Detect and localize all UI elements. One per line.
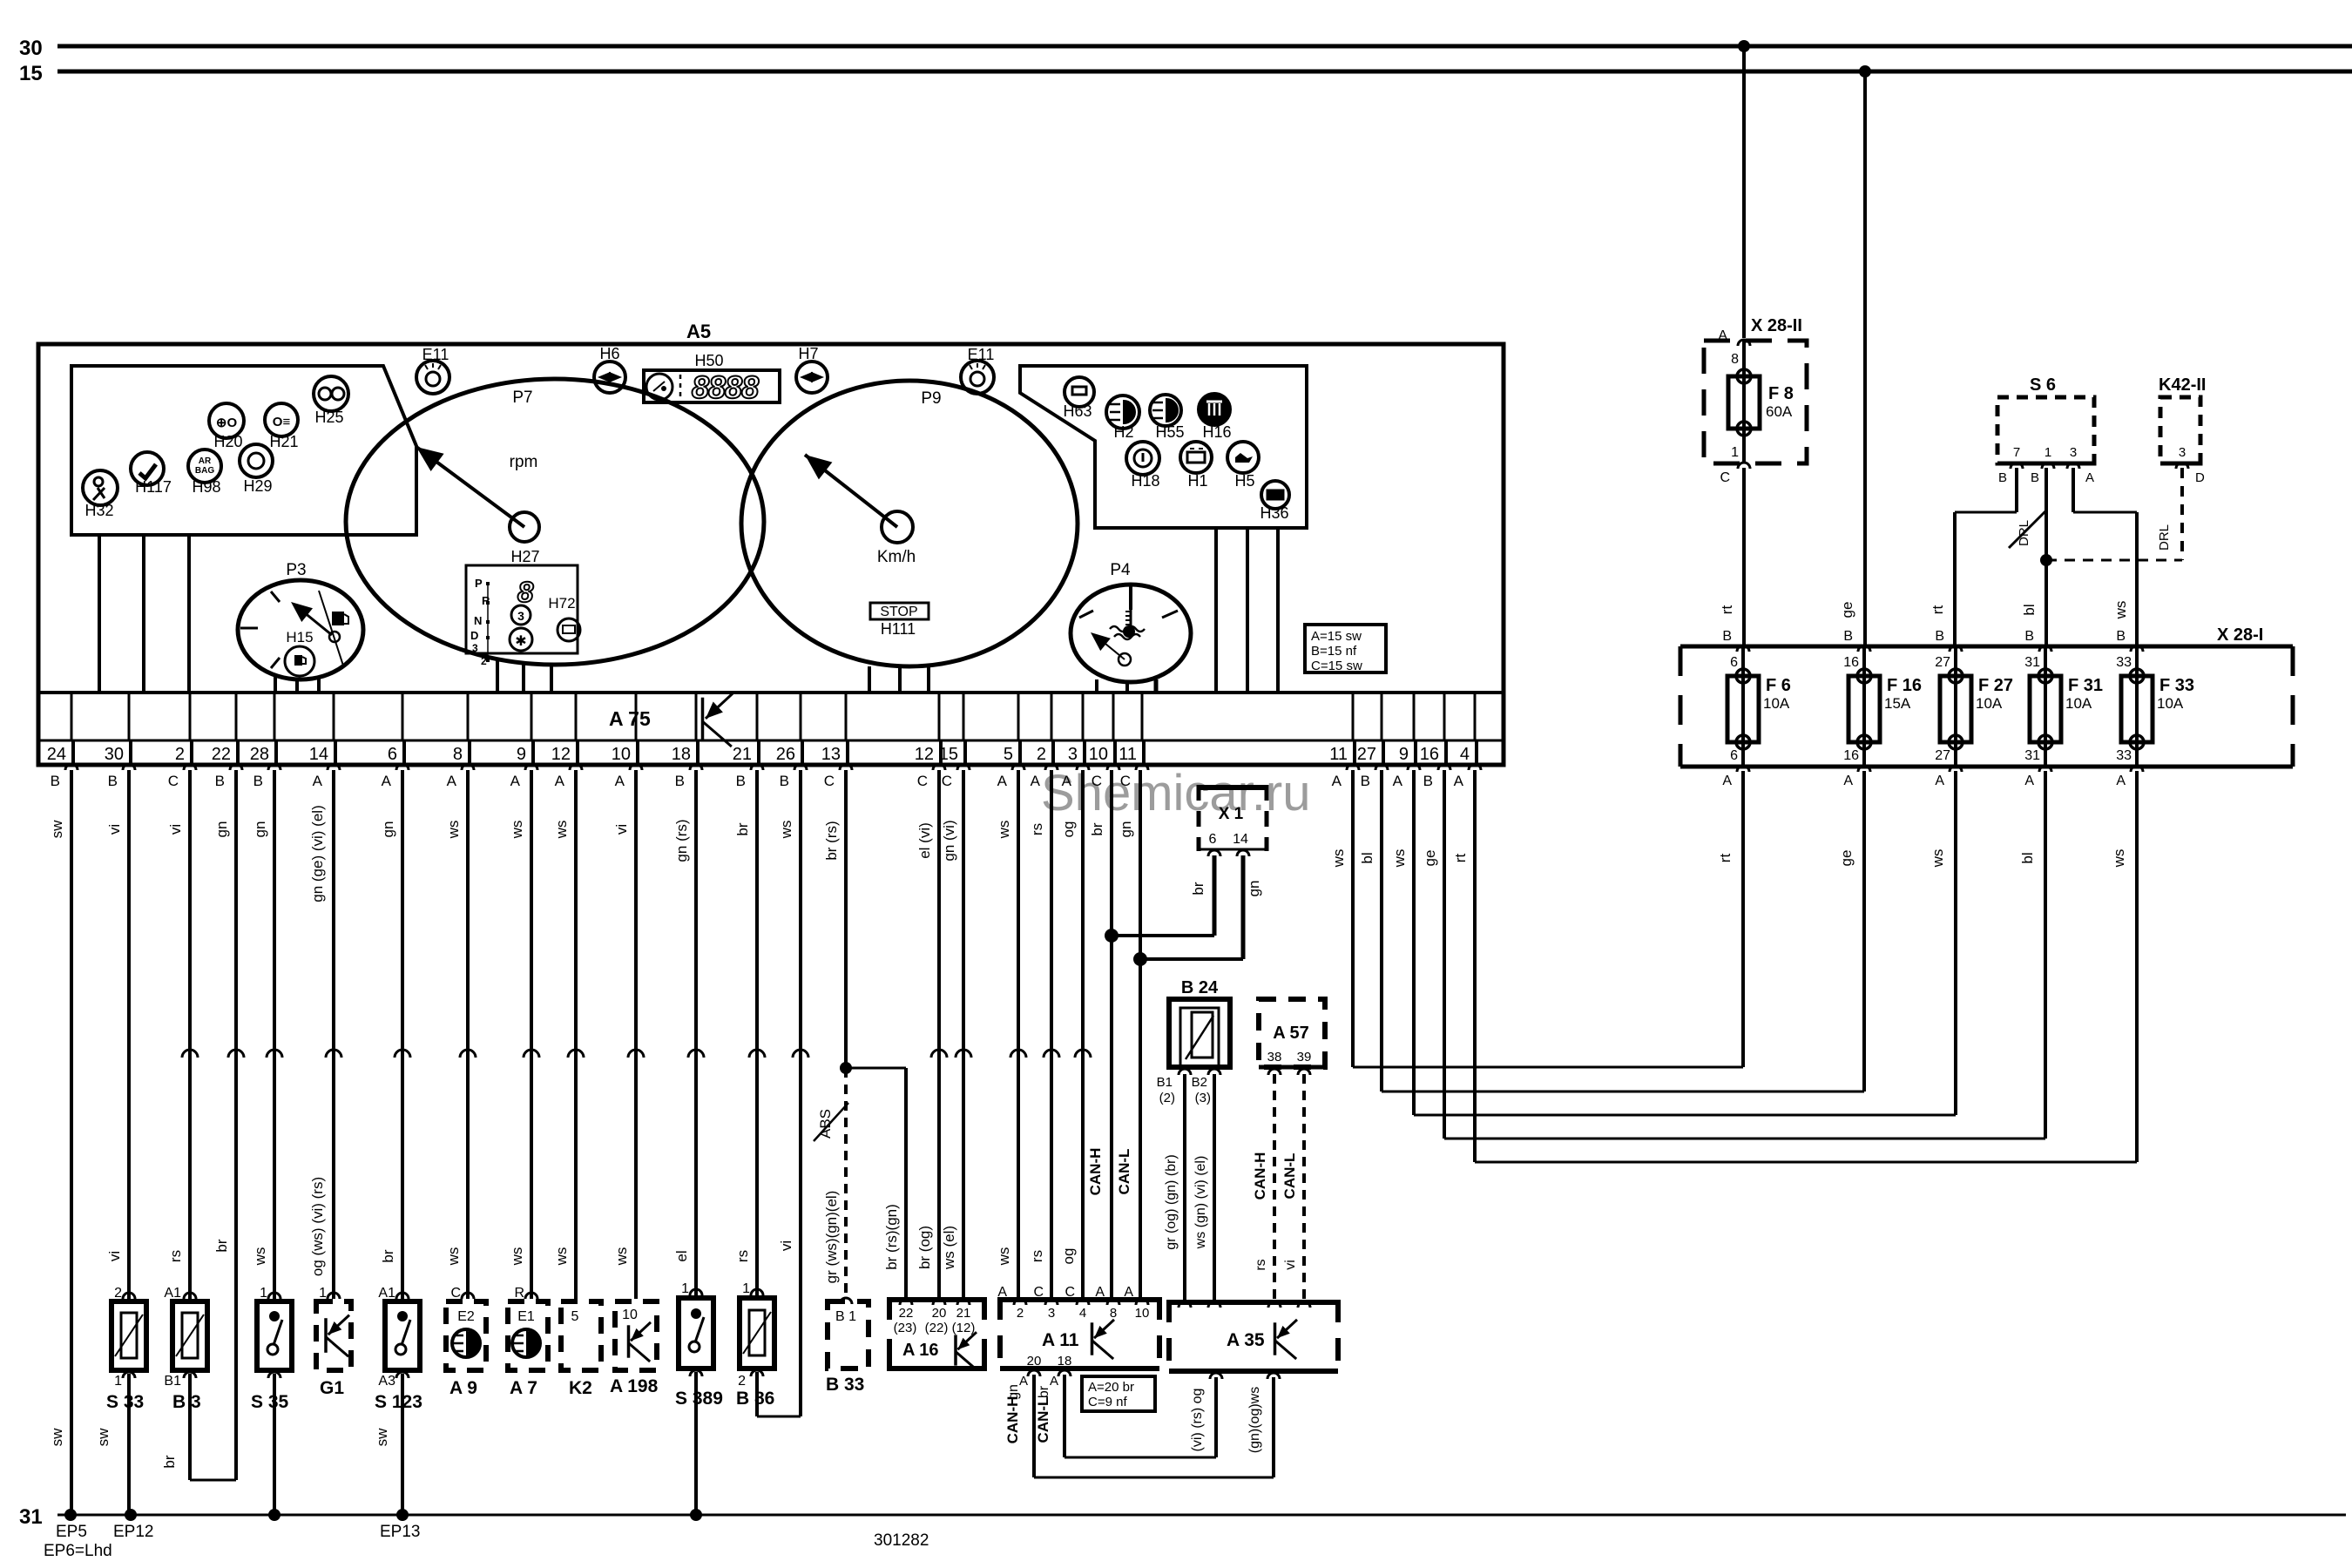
svg-text:br: br: [213, 1239, 230, 1252]
svg-text:A=20 br: A=20 br: [1088, 1380, 1134, 1395]
svg-text:39: 39: [1297, 1050, 1312, 1064]
svg-text:A: A: [2116, 774, 2126, 788]
svg-text:H50: H50: [694, 352, 723, 369]
svg-text:A: A: [555, 773, 565, 789]
svg-text:B: B: [1423, 773, 1433, 789]
svg-text:K2: K2: [569, 1378, 592, 1398]
svg-text:1: 1: [114, 1374, 122, 1389]
indicator H20: [209, 403, 244, 450]
svg-text:ws: ws: [996, 1247, 1012, 1267]
svg-text:DRL: DRL: [2157, 524, 2172, 551]
svg-text:CAN-H: CAN-H: [1087, 1148, 1104, 1196]
svg-text:A 198: A 198: [610, 1376, 659, 1396]
svg-text:10A: 10A: [1976, 695, 2003, 712]
sensor B24: [1157, 978, 1230, 1105]
pin 13 (C): [821, 693, 852, 789]
svg-text:DRL: DRL: [2017, 520, 2031, 546]
svg-text:A: A: [1062, 773, 1072, 789]
wire A11 pin20 CAN-H: [1004, 1370, 1274, 1477]
svg-text:S 6: S 6: [2030, 375, 2056, 395]
indicator H55: [1150, 395, 1185, 441]
pcb A75: [609, 693, 733, 747]
svg-text:gn (ge) (vi) (el): gn (ge) (vi) (el): [309, 805, 326, 902]
connector X28-II with fuse F8: [1704, 316, 1807, 463]
svg-text:X 28-II: X 28-II: [1751, 316, 1802, 335]
svg-text:og: og: [1060, 821, 1077, 838]
bus 31 (ground): [19, 1505, 2346, 1529]
svg-text:H15: H15: [286, 629, 313, 645]
fuse F33: [2116, 629, 2194, 788]
svg-text:21: 21: [956, 1306, 971, 1321]
wire fuel gauge: [317, 676, 321, 693]
svg-text:ws: ws: [1330, 849, 1347, 868]
svg-text:B: B: [2024, 629, 2034, 644]
svg-text:10: 10: [612, 745, 631, 764]
svg-text:sw: sw: [374, 1428, 390, 1447]
svg-text:8: 8: [453, 745, 463, 764]
svg-text:9: 9: [517, 745, 526, 764]
svg-text:br: br: [1089, 822, 1105, 835]
svg-text:12: 12: [915, 745, 934, 764]
svg-text:br: br: [161, 1455, 178, 1468]
wire below S389: [690, 1370, 702, 1515]
fuel gauge P3: [238, 561, 363, 679]
svg-text:H117: H117: [135, 478, 172, 496]
wire from indicator box: [187, 535, 191, 693]
pin 10 (A): [612, 693, 642, 789]
svg-text:6: 6: [1730, 655, 1738, 670]
svg-text:26: 26: [776, 745, 795, 764]
wire ws pin26: [778, 770, 808, 1416]
instrument cluster A5: [38, 321, 1504, 765]
generator G1: [316, 1286, 351, 1398]
svg-text:F 33: F 33: [2159, 676, 2194, 695]
svg-text:A: A: [1454, 773, 1464, 789]
svg-text:C: C: [917, 773, 928, 789]
wire br pin10 CAN-H: [1087, 770, 1112, 1300]
svg-text:(12): (12): [952, 1321, 976, 1335]
svg-text:X 1: X 1: [1219, 805, 1244, 823]
svg-text:38: 38: [1267, 1050, 1282, 1064]
svg-text:A 11: A 11: [1042, 1330, 1079, 1350]
svg-text:60A: 60A: [1766, 403, 1793, 420]
module A16: [889, 1297, 984, 1371]
fuse F27: [1935, 629, 2013, 788]
svg-text:C: C: [168, 773, 179, 789]
svg-text:B: B: [1998, 470, 2007, 485]
svg-text:B: B: [2116, 629, 2126, 644]
wire sw pin24: [49, 770, 71, 1515]
svg-text:CAN-L: CAN-L: [1035, 1397, 1051, 1443]
pin 11 (C): [1119, 693, 1148, 789]
svg-text:14: 14: [1233, 832, 1248, 847]
wire speedo: [868, 666, 871, 693]
svg-text:28: 28: [250, 745, 269, 764]
svg-text:3: 3: [2179, 445, 2186, 460]
svg-text:A: A: [382, 773, 392, 789]
sensor B3: [164, 1286, 207, 1412]
svg-text:rt: rt: [1719, 605, 1735, 615]
svg-text:A: A: [2085, 470, 2094, 485]
svg-text:O≡: O≡: [273, 415, 291, 429]
svg-text:A 75: A 75: [609, 707, 651, 730]
svg-text:EP13: EP13: [380, 1523, 420, 1541]
indicator H98: [188, 449, 221, 496]
indicator H2: [1106, 395, 1139, 441]
wire sw below S33: [95, 1372, 135, 1515]
wire ws pin12 to K2: [553, 770, 584, 1299]
svg-text:ws: ws: [1391, 849, 1408, 868]
svg-text:B 24: B 24: [1181, 978, 1219, 997]
svg-text:2: 2: [481, 655, 487, 667]
wire S6 pin1 to F31 DRL: [2009, 468, 2046, 646]
svg-text:STOP: STOP: [880, 605, 917, 619]
bus 30 (battery +): [19, 37, 2352, 60]
svg-text:31: 31: [2024, 748, 2040, 763]
svg-text:C=15 sw: C=15 sw: [1311, 659, 1362, 673]
svg-text:CAN-L: CAN-L: [1116, 1149, 1132, 1195]
indicator H18: [1126, 442, 1160, 490]
wire gn(vi) pin15: [941, 770, 971, 1297]
wire tach: [522, 664, 525, 693]
svg-text:H36: H36: [1260, 504, 1288, 522]
svg-text:A: A: [1843, 774, 1853, 788]
svg-text:18: 18: [1058, 1354, 1072, 1369]
svg-text:3: 3: [1048, 1306, 1055, 1321]
wire B24 B2 to A35: [1193, 1074, 1214, 1300]
svg-text:8: 8: [1731, 352, 1739, 367]
svg-text:gn: gn: [252, 821, 268, 838]
wire ws pin8 to A9: [445, 770, 476, 1299]
svg-text:rs: rs: [734, 1250, 751, 1262]
wire br(rs) pin13 ABS: [814, 770, 852, 1297]
svg-text:vi: vi: [106, 1251, 123, 1261]
svg-text:ws: ws: [2112, 601, 2129, 620]
svg-text:H20: H20: [213, 433, 242, 450]
indicator box right: [1020, 366, 1307, 528]
svg-text:7: 7: [2013, 445, 2020, 460]
svg-text:6: 6: [1209, 832, 1217, 847]
svg-text:rt: rt: [1452, 854, 1469, 863]
pin 8 (A): [447, 693, 474, 789]
sensor B86: [736, 1281, 774, 1409]
svg-text:6: 6: [1730, 748, 1738, 763]
svg-text:gr (ws)(gn)(el): gr (ws)(gn)(el): [823, 1191, 840, 1284]
svg-text:P4: P4: [1110, 561, 1131, 579]
svg-text:ws: ws: [252, 1247, 268, 1267]
svg-text:3: 3: [472, 642, 478, 654]
svg-text:B=15 nf: B=15 nf: [1311, 644, 1357, 659]
tachometer P7: [346, 379, 764, 665]
svg-text:BAG: BAG: [195, 466, 214, 476]
svg-text:K42-II: K42-II: [2159, 375, 2206, 395]
svg-text:S 33: S 33: [106, 1392, 144, 1412]
svg-text:B: B: [675, 773, 685, 789]
pin 15 (C): [939, 693, 970, 789]
svg-text:gn: gn: [380, 821, 396, 838]
junction DRL: [2040, 554, 2052, 566]
svg-text:rs: rs: [1254, 1259, 1268, 1270]
wire below S35: [268, 1372, 280, 1515]
svg-text:vi: vi: [167, 824, 184, 835]
svg-text:bl: bl: [2021, 604, 2038, 615]
wire temp gauge: [1095, 679, 1098, 693]
svg-text:H32: H32: [84, 502, 113, 519]
svg-text:rt: rt: [1930, 605, 1946, 615]
wire ws pin5: [996, 770, 1026, 1300]
wire from indicator box right: [1246, 528, 1249, 693]
wire A35 out left: [1190, 1373, 1222, 1457]
indicator H29: [240, 444, 273, 495]
bus 15 (ignition +): [19, 62, 2352, 85]
svg-text:27: 27: [1935, 655, 1950, 670]
wire ws fuse to cluster: [1414, 771, 1956, 1115]
wire from bus30 to X28-II: [1738, 40, 1750, 338]
svg-text:A3: A3: [378, 1374, 395, 1389]
wire temp gauge: [1154, 679, 1159, 693]
indicator H25: [314, 376, 348, 426]
svg-text:og (ws) (vi) (rs): og (ws) (vi) (rs): [309, 1177, 326, 1276]
svg-text:22: 22: [899, 1306, 914, 1321]
gear display H27: [466, 548, 580, 667]
wire speedo: [898, 666, 902, 693]
svg-text:6: 6: [388, 745, 397, 764]
lamp A7: [508, 1286, 548, 1398]
pin 6 (A): [382, 693, 409, 789]
pin 30 (B): [105, 693, 135, 789]
ground junction: [690, 1509, 702, 1521]
wire K42-II DRL dashed: [2046, 468, 2182, 560]
ground EP5: [56, 1509, 87, 1541]
connector X1: [1199, 785, 1267, 856]
svg-text:P9: P9: [921, 389, 941, 408]
wire gn pin11 CAN-L: [1116, 770, 1140, 1300]
svg-text:rpm: rpm: [510, 453, 538, 471]
svg-text:Km/h: Km/h: [877, 548, 916, 566]
svg-text:E1: E1: [517, 1309, 535, 1324]
pin 16 (B): [1420, 693, 1450, 789]
wire fuel gauge: [295, 679, 299, 693]
svg-text:br: br: [1190, 882, 1206, 895]
svg-text:A: A: [313, 773, 323, 789]
svg-text:30: 30: [19, 37, 43, 60]
svg-text:EP5: EP5: [56, 1523, 87, 1541]
svg-text:A: A: [1935, 774, 1944, 788]
svg-text:B: B: [253, 773, 263, 789]
svg-text:A: A: [1031, 773, 1041, 789]
pin 2 (C): [168, 693, 196, 789]
pin 28 (B): [250, 693, 280, 789]
pin 12 (C): [915, 693, 945, 789]
svg-text:B: B: [215, 773, 225, 789]
svg-text:27: 27: [1357, 745, 1376, 764]
svg-text:2: 2: [1017, 1306, 1024, 1321]
svg-text:B: B: [1361, 773, 1370, 789]
wire ws pin9 to A7: [509, 770, 539, 1299]
svg-text:A 57: A 57: [1273, 1024, 1309, 1043]
svg-text:H27: H27: [510, 548, 539, 565]
ground junction: [268, 1509, 280, 1521]
svg-text:B: B: [1722, 629, 1732, 644]
svg-text:ge: ge: [1839, 602, 1855, 618]
svg-text:F 31: F 31: [2068, 676, 2103, 695]
svg-text:br: br: [380, 1249, 396, 1262]
svg-text:ws: ws: [996, 821, 1012, 840]
svg-text:1: 1: [742, 1281, 750, 1296]
svg-text:B: B: [1935, 629, 1944, 644]
wire el(vi) pin12: [916, 770, 947, 1297]
indicator H7: [796, 345, 828, 393]
svg-text:2: 2: [114, 1286, 122, 1301]
svg-text:C: C: [1120, 773, 1131, 789]
fuse F16: [1843, 629, 1922, 788]
svg-text:30: 30: [105, 745, 124, 764]
svg-text:(gn)(og)ws: (gn)(og)ws: [1247, 1387, 1262, 1453]
svg-text:F 16: F 16: [1887, 676, 1922, 695]
wire tach: [496, 659, 499, 693]
indicator H36: [1260, 481, 1289, 522]
svg-text:27: 27: [1935, 748, 1950, 763]
svg-text:9: 9: [1399, 745, 1409, 764]
wire from indicator box: [142, 535, 145, 693]
svg-text:ws: ws: [553, 821, 570, 840]
svg-text:el (vi): el (vi): [916, 822, 933, 859]
svg-text:11: 11: [1119, 745, 1137, 764]
svg-text:B: B: [780, 773, 789, 789]
svg-text:A1: A1: [378, 1286, 395, 1301]
svg-text:H63: H63: [1063, 402, 1092, 420]
svg-text:B: B: [51, 773, 60, 789]
indicator H1: [1180, 442, 1212, 490]
lamp E11 right: [961, 346, 994, 394]
svg-text:10: 10: [1135, 1306, 1150, 1321]
svg-text:H21: H21: [269, 433, 298, 450]
svg-text:A: A: [997, 773, 1008, 789]
svg-text:20: 20: [932, 1306, 947, 1321]
svg-text:gn (rs): gn (rs): [673, 819, 690, 862]
svg-text:ws: ws: [613, 1247, 630, 1267]
indicator box left: [71, 366, 416, 535]
svg-text:EP12: EP12: [113, 1523, 153, 1541]
svg-text:ws: ws: [553, 1247, 570, 1267]
svg-text:ws: ws: [445, 1247, 462, 1267]
svg-text:21: 21: [733, 745, 752, 764]
svg-text:B: B: [1843, 629, 1853, 644]
relay K42-II: [2159, 375, 2206, 485]
svg-text:ws: ws: [1930, 849, 1946, 868]
indicator H5: [1227, 442, 1259, 490]
stop lamp H111: [870, 603, 929, 638]
svg-text:D: D: [2195, 470, 2205, 485]
wire br below B3: [161, 1372, 236, 1480]
svg-text:A 16: A 16: [902, 1341, 939, 1360]
wire ge pin16 right: [1422, 770, 1444, 1139]
svg-text:vi: vi: [613, 824, 630, 835]
svg-text:1: 1: [319, 1286, 327, 1301]
fuse F31: [2024, 629, 2103, 788]
svg-text:13: 13: [821, 745, 841, 764]
pin 9 (A): [510, 693, 537, 789]
indicator H63: [1063, 377, 1094, 420]
svg-text:A 9: A 9: [449, 1378, 477, 1398]
svg-text:8888: 8888: [692, 369, 759, 405]
svg-text:rs: rs: [1029, 823, 1045, 835]
svg-text:ge: ge: [1838, 850, 1855, 867]
svg-text:12: 12: [551, 745, 571, 764]
svg-text:G1: G1: [320, 1378, 344, 1398]
fuse F6: [1722, 629, 1791, 788]
wire from indicator box right: [1214, 528, 1218, 693]
svg-text:N: N: [474, 614, 482, 627]
svg-text:H29: H29: [243, 477, 272, 495]
wire br pin21 to B86: [734, 770, 765, 1299]
svg-text:2: 2: [1037, 745, 1046, 764]
svg-text:15A: 15A: [1884, 695, 1911, 712]
svg-text:3: 3: [517, 609, 524, 623]
svg-text:ws: ws: [445, 821, 462, 840]
switch S6: [1997, 375, 2094, 485]
svg-text:ws (gn) (vi) (el): ws (gn) (vi) (el): [1193, 1156, 1208, 1250]
wire rt pin4 right: [1452, 770, 1475, 1162]
svg-text:2: 2: [738, 1374, 746, 1389]
svg-text:B1: B1: [164, 1374, 181, 1389]
svg-text:2: 2: [175, 745, 185, 764]
switch S389: [675, 1281, 723, 1409]
svg-text:gn: gn: [1006, 1384, 1021, 1400]
svg-text:CAN-H: CAN-H: [1004, 1396, 1021, 1444]
svg-text:4: 4: [1460, 745, 1470, 764]
svg-text:16: 16: [1843, 748, 1859, 763]
svg-text:rs: rs: [167, 1250, 184, 1262]
svg-text:B: B: [108, 773, 118, 789]
svg-text:br (rs)(gn): br (rs)(gn): [883, 1204, 900, 1270]
lamp A9: [446, 1286, 486, 1398]
switch S123: [375, 1286, 422, 1412]
svg-text:sw: sw: [49, 820, 65, 839]
svg-text:B: B: [736, 773, 746, 789]
wire S6 pin7 to F27: [1930, 468, 2017, 646]
indicator H117: [131, 452, 172, 496]
wire vi pin30 to S33: [106, 770, 129, 1299]
svg-text:S 389: S 389: [675, 1389, 723, 1409]
pin 22 (B): [212, 693, 242, 789]
note internal circuit: [1305, 625, 1386, 673]
svg-text:A5: A5: [686, 321, 711, 342]
svg-text:X 28-I: X 28-I: [2217, 625, 2263, 645]
svg-text:15: 15: [939, 745, 958, 764]
svg-text:ws: ws: [509, 821, 525, 840]
svg-text:31: 31: [19, 1505, 43, 1529]
svg-text:gn (vi): gn (vi): [941, 820, 957, 861]
svg-text:H18: H18: [1131, 472, 1159, 490]
wire speedo: [927, 665, 930, 693]
svg-text:B1: B1: [1157, 1075, 1173, 1090]
indicator H32: [83, 470, 118, 519]
svg-text:og: og: [1060, 1248, 1077, 1265]
svg-text:33: 33: [2116, 655, 2132, 670]
pin 5 (A): [997, 693, 1024, 789]
svg-text:A 7: A 7: [510, 1378, 537, 1398]
wire branch to A16: [846, 1068, 906, 1297]
X28-II pin C: [1720, 445, 1750, 485]
svg-text:H2: H2: [1113, 423, 1133, 441]
svg-text:18: 18: [672, 745, 691, 764]
svg-text:B: B: [2031, 470, 2039, 485]
svg-text:EP6=Lhd: EP6=Lhd: [44, 1542, 112, 1560]
wire A57 pin39 CAN-L: [1281, 1074, 1304, 1300]
svg-text:(3): (3): [1195, 1091, 1211, 1105]
svg-text:16: 16: [1843, 655, 1859, 670]
